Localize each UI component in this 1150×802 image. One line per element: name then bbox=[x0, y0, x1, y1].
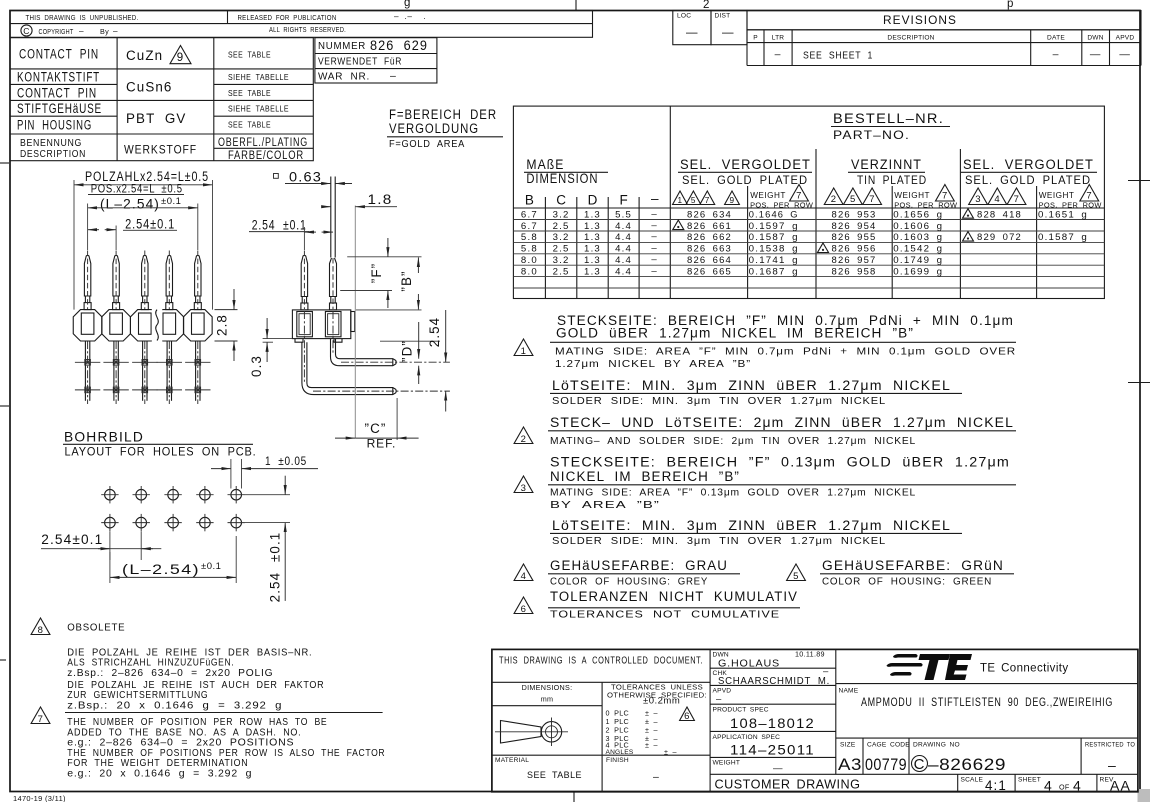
svg-text:0.1587 g: 0.1587 g bbox=[749, 232, 799, 243]
svg-text:–: – bbox=[651, 243, 658, 254]
svg-text:WEIGHT: WEIGHT bbox=[894, 191, 930, 200]
dim 2.8 housing height bbox=[215, 309, 238, 311]
svg-text:–: – bbox=[651, 254, 658, 265]
material table bbox=[10, 38, 313, 162]
svg-text:1.3: 1.3 bbox=[584, 221, 601, 232]
svg-text:7: 7 bbox=[869, 194, 875, 205]
svg-text:VERZINNT: VERZINNT bbox=[851, 157, 922, 172]
svg-text:DRAWING NO: DRAWING NO bbox=[913, 742, 960, 749]
svg-text:CAGE CODE: CAGE CODE bbox=[867, 742, 910, 749]
svg-text:SHEET: SHEET bbox=[1018, 777, 1041, 784]
fold marks right bbox=[1128, 180, 1150, 182]
svg-text:826 664: 826 664 bbox=[687, 255, 732, 266]
svg-text:PIN HOUSING: PIN HOUSING bbox=[17, 118, 92, 133]
svg-text:”D”: ”D” bbox=[400, 340, 415, 362]
table data rows bbox=[521, 208, 1088, 277]
svg-text:A3: A3 bbox=[838, 755, 862, 774]
svg-text:3.2: 3.2 bbox=[553, 232, 570, 243]
svg-text:LOC: LOC bbox=[677, 13, 691, 20]
svg-text:0.1687 g: 0.1687 g bbox=[749, 267, 799, 278]
svg-text:829 072: 829 072 bbox=[977, 232, 1022, 243]
svg-text:0.1542 g: 0.1542 g bbox=[893, 244, 943, 255]
svg-text:LAYOUT FOR HOLES ON PCB.: LAYOUT FOR HOLES ON PCB. bbox=[65, 445, 257, 459]
svg-text:F=BEREICH DER: F=BEREICH DER bbox=[389, 107, 497, 122]
svg-text:0.1606 g: 0.1606 g bbox=[893, 221, 943, 232]
svg-text:0.1597 g: 0.1597 g bbox=[749, 221, 799, 232]
svg-text:GOLD üBER 1.27μm NICKEL IM: GOLD üBER 1.27μm NICKEL IM BEREICH ”B” bbox=[556, 326, 914, 341]
svg-text:6: 6 bbox=[684, 711, 690, 722]
svg-text:9: 9 bbox=[729, 196, 734, 205]
svg-text:0.1749 g: 0.1749 g bbox=[893, 255, 943, 266]
revisions table bbox=[673, 11, 1141, 66]
svg-text:5.8: 5.8 bbox=[521, 244, 538, 255]
svg-text:POS.x2.54=L ±0.5: POS.x2.54=L ±0.5 bbox=[91, 182, 183, 196]
plating notes bbox=[514, 313, 1016, 620]
svg-text:MAßE: MAßE bbox=[526, 156, 564, 172]
svg-text:STECKSEITE: BEREICH ”F” 0.1: STECKSEITE: BEREICH ”F” 0.13μm GOLD üBER… bbox=[550, 455, 1010, 470]
pins 1-5 bbox=[84, 251, 91, 310]
svg-text:1.3: 1.3 bbox=[584, 255, 601, 266]
svg-text:PBT GV: PBT GV bbox=[126, 111, 186, 126]
svg-text:BY AREA ”B”: BY AREA ”B” bbox=[550, 499, 660, 511]
title block bbox=[492, 649, 1138, 793]
svg-text:10.11.89: 10.11.89 bbox=[795, 650, 825, 659]
svg-text:DESCRIPTION: DESCRIPTION bbox=[887, 35, 934, 42]
svg-text:NAME: NAME bbox=[839, 688, 859, 695]
svg-text:CONTACT PIN: CONTACT PIN bbox=[19, 47, 99, 62]
svg-text:4.4: 4.4 bbox=[615, 267, 632, 278]
svg-text:GEHäUSEFARBE: GRüN: GEHäUSEFARBE: GRüN bbox=[822, 558, 1004, 573]
svg-text:–: – bbox=[653, 771, 660, 783]
svg-text:3: 3 bbox=[521, 483, 527, 494]
svg-text:4: 4 bbox=[521, 571, 527, 582]
svg-text:SEL. VERGOLDET: SEL. VERGOLDET bbox=[963, 157, 1094, 172]
dim D bbox=[380, 340, 440, 342]
svg-text:mm: mm bbox=[541, 695, 554, 704]
svg-text:826 953: 826 953 bbox=[832, 209, 877, 220]
svg-text:F=GOLD AREA: F=GOLD AREA bbox=[389, 138, 465, 150]
note 3 bbox=[514, 476, 533, 493]
svg-text:– .– .: – .– . bbox=[394, 12, 426, 21]
svg-text:F: F bbox=[619, 193, 627, 208]
svg-text:826 662: 826 662 bbox=[687, 232, 732, 243]
svg-text:0.1538 g: 0.1538 g bbox=[749, 244, 799, 255]
svg-text:STECK– UND LöTSEITE: 2μm Z: STECK– UND LöTSEITE: 2μm ZINN üBER 1.27μ… bbox=[550, 415, 1014, 430]
svg-text:POS. PER ROW: POS. PER ROW bbox=[1039, 200, 1102, 209]
svg-text:—: — bbox=[1090, 49, 1101, 61]
svg-text:4.4: 4.4 bbox=[615, 244, 632, 255]
svg-text:WAR NR.: WAR NR. bbox=[318, 71, 370, 83]
svg-text:00779: 00779 bbox=[865, 755, 907, 774]
svg-text:APPLICATION SPEC: APPLICATION SPEC bbox=[713, 734, 781, 741]
fold mark top bbox=[575, 0, 577, 11]
top leg (back row) bbox=[331, 339, 397, 366]
svg-text:BESTELL–NR.: BESTELL–NR. bbox=[833, 110, 944, 126]
svg-text:SEE TABLE: SEE TABLE bbox=[527, 770, 582, 781]
svg-text:POS. PER ROW: POS. PER ROW bbox=[894, 200, 957, 209]
svg-text:DWN: DWN bbox=[1087, 35, 1103, 42]
dim F bbox=[347, 256, 421, 258]
svg-text:CuSn6: CuSn6 bbox=[126, 80, 172, 95]
svg-text:2.5: 2.5 bbox=[553, 221, 570, 232]
svg-text:TOLERANZEN NICHT KUMULATIV: TOLERANZEN NICHT KUMULATIV bbox=[550, 589, 798, 604]
svg-text:POS. PER ROW: POS. PER ROW bbox=[750, 200, 813, 209]
svg-text:826 663: 826 663 bbox=[687, 244, 732, 255]
svg-text:P: P bbox=[753, 35, 758, 42]
svg-text:NUMMER: NUMMER bbox=[318, 40, 366, 52]
svg-text:VERGOLDUNG: VERGOLDUNG bbox=[389, 121, 479, 136]
svg-text:”C”: ”C” bbox=[365, 421, 387, 436]
top header strip bbox=[10, 11, 593, 38]
svg-text:4.4: 4.4 bbox=[615, 232, 632, 243]
FRONT VIEW of pin header bbox=[73, 169, 237, 404]
svg-text:5: 5 bbox=[850, 194, 856, 205]
corner grey scan block bbox=[1138, 789, 1150, 802]
dim 2.54 rows (right) bbox=[245, 494, 290, 496]
svg-text:828 418: 828 418 bbox=[977, 209, 1022, 220]
svg-text:2.54 ±0.1: 2.54 ±0.1 bbox=[268, 532, 283, 603]
SIDE VIEW of right-angle pin header bbox=[249, 170, 450, 451]
svg-text:4: 4 bbox=[1044, 778, 1053, 794]
svg-text:0.1741 g: 0.1741 g bbox=[749, 255, 799, 266]
svg-text:C: C bbox=[23, 26, 29, 36]
housing units bbox=[73, 310, 102, 341]
svg-text:C: C bbox=[914, 756, 926, 773]
svg-text:”B”: ”B” bbox=[399, 270, 414, 291]
fold mark bottom bbox=[573, 791, 575, 802]
svg-text:COLOR OF HOUSING: GREY: COLOR OF HOUSING: GREY bbox=[550, 575, 708, 587]
svg-text:DIST: DIST bbox=[715, 13, 731, 20]
svg-text:z.Bsp.: 20 x 0.1646 g =: z.Bsp.: 20 x 0.1646 g = 3.292 g bbox=[67, 699, 282, 711]
svg-text:COLOR OF HOUSING: GREEN: COLOR OF HOUSING: GREEN bbox=[822, 575, 992, 587]
svg-text:RELEASED FOR PUBLICATION: RELEASED FOR PUBLICATION bbox=[238, 13, 337, 22]
svg-text:DIMENSION: DIMENSION bbox=[526, 171, 598, 186]
svg-text:7: 7 bbox=[38, 714, 44, 725]
svg-text:—: — bbox=[1119, 49, 1130, 61]
svg-text:THIS DRAWING IS UNPUBLISHED: THIS DRAWING IS UNPUBLISHED. bbox=[26, 13, 139, 22]
svg-text:ALL RIGHTS RESERVED.: ALL RIGHTS RESERVED. bbox=[269, 25, 346, 34]
svg-text:2: 2 bbox=[831, 194, 837, 205]
svg-text:REVISIONS: REVISIONS bbox=[883, 15, 957, 27]
svg-text:8.0: 8.0 bbox=[521, 255, 538, 266]
svg-text:826 958: 826 958 bbox=[832, 267, 877, 278]
triangle note 9 bbox=[170, 46, 191, 64]
svg-text:CuZn: CuZn bbox=[126, 48, 163, 63]
svg-text:±0.2mm: ±0.2mm bbox=[643, 696, 680, 707]
svg-text:826 634: 826 634 bbox=[687, 209, 732, 220]
svg-text:826 955: 826 955 bbox=[832, 232, 877, 243]
svg-text:± –: ± – bbox=[645, 741, 658, 750]
svg-text:1 ±0.05: 1 ±0.05 bbox=[265, 454, 307, 468]
svg-text:TE Connectivity: TE Connectivity bbox=[980, 663, 1069, 675]
svg-text:–: – bbox=[651, 191, 659, 206]
svg-text:–: – bbox=[651, 266, 658, 277]
svg-text:REF.: REF. bbox=[367, 437, 397, 451]
svg-text:826 629: 826 629 bbox=[370, 37, 428, 53]
svg-text:2.5: 2.5 bbox=[553, 244, 570, 255]
svg-text:AMPMODU II STIFTLEISTEN 90: AMPMODU II STIFTLEISTEN 90 DEG.,ZWEIREIH… bbox=[861, 695, 1113, 709]
svg-text:GEHäUSEFARBE: GRAU: GEHäUSEFARBE: GRAU bbox=[550, 558, 728, 573]
svg-text:2: 2 bbox=[703, 0, 710, 11]
svg-text:—: — bbox=[686, 27, 699, 39]
svg-text:–: – bbox=[79, 27, 84, 36]
svg-text:–: – bbox=[113, 27, 118, 36]
svg-text:–: – bbox=[716, 694, 722, 705]
copyright row bbox=[21, 25, 32, 36]
svg-text:7: 7 bbox=[705, 196, 710, 205]
svg-text:OBERFL./PLATING: OBERFL./PLATING bbox=[218, 137, 308, 149]
svg-text:4.4: 4.4 bbox=[615, 221, 632, 232]
svg-text:DESCRIPTION: DESCRIPTION bbox=[20, 148, 86, 160]
dim 0.3 bbox=[263, 338, 293, 340]
svg-text:WEIGHT: WEIGHT bbox=[1039, 191, 1075, 200]
svg-text:108–18012: 108–18012 bbox=[730, 715, 815, 731]
projection symbol bbox=[501, 721, 542, 744]
svg-text:1.3: 1.3 bbox=[584, 267, 601, 278]
svg-text:± –: ± – bbox=[664, 748, 677, 757]
svg-text:RESTRICTED TO: RESTRICTED TO bbox=[1085, 742, 1135, 749]
svg-text:–: – bbox=[651, 231, 658, 242]
svg-text:0.1651 g: 0.1651 g bbox=[1038, 209, 1088, 220]
svg-text:826 957: 826 957 bbox=[832, 255, 877, 266]
svg-text:–: – bbox=[775, 49, 782, 61]
svg-text:KONTAKTSTIFT: KONTAKTSTIFT bbox=[17, 70, 100, 85]
svg-text:SIEHE TABELLE: SIEHE TABELLE bbox=[228, 73, 289, 82]
note 1 bbox=[514, 339, 533, 356]
dim C REF bbox=[396, 398, 398, 440]
svg-text:OF: OF bbox=[1059, 783, 1070, 792]
svg-text:COPYRIGHT: COPYRIGHT bbox=[39, 27, 74, 36]
svg-text:–826629: –826629 bbox=[928, 755, 1006, 774]
svg-text:VERWENDET FüR: VERWENDET FüR bbox=[318, 56, 402, 68]
svg-text:1: 1 bbox=[521, 346, 527, 357]
svg-text:0.1646 G: 0.1646 G bbox=[749, 209, 799, 220]
svg-text:MATING– AND SOLDER SIDE: 2: MATING– AND SOLDER SIDE: 2μm TIN OVER 1.… bbox=[550, 435, 916, 447]
svg-text:”F”: ”F” bbox=[369, 263, 384, 283]
svg-text:DIMENSIONS:: DIMENSIONS: bbox=[522, 683, 573, 692]
svg-text:5: 5 bbox=[691, 196, 696, 205]
svg-text:p: p bbox=[1007, 0, 1014, 10]
dim 2.54 legs bbox=[445, 310, 447, 362]
housing feet bbox=[295, 339, 303, 343]
svg-text:SEE TABLE: SEE TABLE bbox=[228, 89, 271, 98]
svg-text:PART–NO.: PART–NO. bbox=[833, 130, 910, 142]
svg-text:0.1603 g: 0.1603 g bbox=[893, 232, 943, 243]
leg centerlines bbox=[332, 311, 334, 354]
svg-text:THIS DRAWING IS A CONTROLL: THIS DRAWING IS A CONTROLLED DOCUMENT. bbox=[499, 655, 703, 667]
svg-text:—: — bbox=[722, 27, 735, 39]
svg-text:6.7: 6.7 bbox=[521, 221, 538, 232]
svg-text:826 661: 826 661 bbox=[687, 221, 732, 232]
svg-text:G.HOLAUS: G.HOLAUS bbox=[718, 657, 780, 669]
svg-text:826 665: 826 665 bbox=[687, 267, 732, 278]
svg-text:–: – bbox=[651, 220, 658, 231]
BOHRBILD hole layout bbox=[41, 429, 318, 603]
svg-text:1.3: 1.3 bbox=[584, 244, 601, 255]
svg-text:826 954: 826 954 bbox=[832, 221, 877, 232]
svg-text:AA: AA bbox=[1110, 778, 1131, 794]
bottom leg (front row) bbox=[302, 342, 396, 394]
svg-text:4: 4 bbox=[994, 194, 1000, 205]
svg-text:9: 9 bbox=[177, 52, 184, 64]
svg-text:0.1699 g: 0.1699 g bbox=[893, 267, 943, 278]
svg-text:FARBE/COLOR: FARBE/COLOR bbox=[228, 150, 304, 162]
svg-text:3.2: 3.2 bbox=[553, 255, 570, 266]
svg-text:±0.1: ±0.1 bbox=[161, 196, 181, 207]
svg-text:0.1656 g: 0.1656 g bbox=[893, 209, 943, 220]
svg-text:g: g bbox=[404, 0, 411, 9]
svg-text:4.4: 4.4 bbox=[615, 255, 632, 266]
front pin bbox=[301, 255, 307, 296]
break squiggle between units 3-4 bbox=[152, 308, 163, 343]
svg-text:4:1: 4:1 bbox=[985, 778, 1007, 793]
svg-text:1.3: 1.3 bbox=[584, 209, 601, 220]
svg-text:5.8: 5.8 bbox=[521, 232, 538, 243]
svg-text:B: B bbox=[525, 193, 534, 208]
svg-text:1.27μm NICKEL BY AREA ”B”: 1.27μm NICKEL BY AREA ”B” bbox=[555, 358, 751, 370]
svg-text:TIN PLATED: TIN PLATED bbox=[857, 175, 927, 187]
svg-text:MATING SIDE: AREA ”F” 0.13: MATING SIDE: AREA ”F” 0.13μm GOLD OVER 1… bbox=[550, 486, 916, 498]
housing (side) bbox=[292, 310, 350, 339]
svg-text:SOLDER SIDE: MIN. 3μm TIN: SOLDER SIDE: MIN. 3μm TIN OVER 1.27μm NI… bbox=[552, 535, 886, 547]
extension lines bbox=[73, 180, 75, 310]
svg-text:1.8: 1.8 bbox=[368, 192, 393, 207]
svg-text:1: 1 bbox=[677, 196, 682, 205]
svg-text:3: 3 bbox=[975, 194, 981, 205]
svg-text:e.g.: 20 x 0.1646 g = 3.: e.g.: 20 x 0.1646 g = 3.292 g bbox=[67, 768, 252, 780]
legs 1-5 bbox=[75, 341, 100, 404]
svg-text:ANGLES: ANGLES bbox=[606, 749, 634, 756]
svg-text:6.7: 6.7 bbox=[521, 209, 538, 220]
svg-text:1.3: 1.3 bbox=[584, 232, 601, 243]
svg-text:2: 2 bbox=[521, 434, 527, 445]
svg-text:LöTSEITE: MIN. 3μm ZINN üB: LöTSEITE: MIN. 3μm ZINN üBER 1.27μm NICK… bbox=[552, 378, 951, 393]
svg-text:2.5: 2.5 bbox=[553, 267, 570, 278]
svg-text:By: By bbox=[100, 27, 109, 36]
svg-text:CUSTOMER DRAWING: CUSTOMER DRAWING bbox=[715, 777, 861, 792]
svg-text:4: 4 bbox=[1073, 778, 1082, 794]
svg-text:0.1587 g: 0.1587 g bbox=[1038, 232, 1088, 243]
svg-text:8.0: 8.0 bbox=[521, 267, 538, 278]
svg-text:WERKSTOFF: WERKSTOFF bbox=[124, 145, 197, 157]
svg-text:6: 6 bbox=[521, 604, 527, 615]
svg-text:SIZE: SIZE bbox=[840, 742, 856, 749]
svg-text:2.54±0.1: 2.54±0.1 bbox=[125, 217, 175, 232]
svg-text:LTR: LTR bbox=[772, 35, 785, 42]
note 5 bbox=[787, 564, 806, 581]
svg-text:CONTACT PIN: CONTACT PIN bbox=[17, 86, 97, 101]
svg-text:–: – bbox=[651, 208, 658, 219]
svg-text:MATING SIDE: AREA ”F” MIN: MATING SIDE: AREA ”F” MIN 0.7μm PdNi + M… bbox=[555, 345, 1016, 357]
svg-text:SEE TABLE: SEE TABLE bbox=[228, 121, 271, 130]
back pin upper square section bbox=[330, 177, 332, 258]
svg-text:SEE TABLE: SEE TABLE bbox=[228, 51, 271, 60]
obsolete + base number notes bbox=[31, 618, 385, 780]
svg-text:DATE: DATE bbox=[1047, 35, 1065, 42]
svg-text:826 956: 826 956 bbox=[832, 244, 877, 255]
svg-text:5: 5 bbox=[793, 571, 799, 582]
svg-text:8: 8 bbox=[38, 625, 44, 636]
note 4 bbox=[514, 564, 533, 581]
svg-text:114–25011: 114–25011 bbox=[730, 742, 815, 758]
svg-text:SCALE: SCALE bbox=[961, 777, 984, 784]
svg-text:BOHRBILD: BOHRBILD bbox=[64, 429, 144, 445]
svg-text:–: – bbox=[1053, 49, 1060, 61]
svg-text:TOLERANCES NOT CUMULATIVE: TOLERANCES NOT CUMULATIVE bbox=[550, 608, 780, 620]
svg-text:OBSOLETE: OBSOLETE bbox=[67, 622, 125, 634]
svg-text:7: 7 bbox=[1014, 194, 1020, 205]
part number table bbox=[513, 106, 1104, 298]
svg-text:–: – bbox=[1108, 757, 1117, 773]
dim B bbox=[356, 309, 422, 311]
svg-text:1470-19 (3/11): 1470-19 (3/11) bbox=[13, 794, 66, 802]
dim 0.63 square bbox=[274, 174, 279, 179]
svg-text:SEL. VERGOLDET: SEL. VERGOLDET bbox=[680, 157, 811, 172]
svg-text:FINISH: FINISH bbox=[606, 757, 629, 764]
svg-text:2.54±0.1: 2.54±0.1 bbox=[41, 532, 103, 547]
note 2 bbox=[514, 427, 533, 444]
svg-text:(L–2.54): (L–2.54) bbox=[100, 197, 160, 212]
svg-text:—: — bbox=[773, 763, 783, 774]
svg-text:0.63: 0.63 bbox=[289, 170, 322, 185]
svg-text:WEIGHT: WEIGHT bbox=[713, 760, 741, 767]
svg-text:PRODUCT SPEC: PRODUCT SPEC bbox=[713, 707, 769, 714]
svg-text:SEL. GOLD PLATED: SEL. GOLD PLATED bbox=[965, 175, 1091, 187]
svg-text:NICKEL IM BEREICH ”B”: NICKEL IM BEREICH ”B” bbox=[550, 469, 740, 484]
svg-text:STIFTGEHäUSE: STIFTGEHäUSE bbox=[17, 101, 102, 116]
svg-text:APVD: APVD bbox=[1116, 35, 1135, 42]
svg-text:5.5: 5.5 bbox=[615, 209, 632, 220]
svg-text:SEL. GOLD PLATED: SEL. GOLD PLATED bbox=[682, 175, 808, 187]
fold marks left bbox=[0, 162, 9, 164]
TE logo bbox=[887, 654, 973, 680]
svg-text:SOLDER SIDE: MIN. 3μm TIN: SOLDER SIDE: MIN. 3μm TIN OVER 1.27μm NI… bbox=[552, 395, 886, 407]
svg-text:2.54 ±0.1: 2.54 ±0.1 bbox=[252, 218, 307, 233]
note 6 bbox=[514, 597, 533, 614]
svg-text:C: C bbox=[556, 193, 566, 208]
svg-text:3.2: 3.2 bbox=[553, 209, 570, 220]
svg-text:2.8: 2.8 bbox=[215, 314, 230, 336]
back pin body bbox=[330, 258, 337, 297]
svg-text:MATERIAL: MATERIAL bbox=[495, 757, 529, 764]
svg-text:(L–2.54): (L–2.54) bbox=[122, 562, 200, 577]
svg-text:SCHAARSCHMIDT M.: SCHAARSCHMIDT M. bbox=[718, 675, 830, 687]
nummer box bbox=[315, 37, 503, 150]
svg-text:LöTSEITE: MIN. 3μm ZINN üB: LöTSEITE: MIN. 3μm ZINN üBER 1.27μm NICK… bbox=[552, 518, 951, 533]
svg-text:WEIGHT: WEIGHT bbox=[750, 191, 786, 200]
svg-text:SEE SHEET 1: SEE SHEET 1 bbox=[803, 50, 873, 62]
svg-text:±0.1: ±0.1 bbox=[201, 561, 221, 572]
svg-text:2.54: 2.54 bbox=[427, 317, 442, 347]
svg-text:D: D bbox=[588, 193, 598, 208]
svg-text:0.3: 0.3 bbox=[249, 355, 264, 377]
construction line (pcb face) bbox=[354, 206, 356, 439]
svg-text:z.Bsp.: 2–826 634–0 = 2x20: z.Bsp.: 2–826 634–0 = 2x20 POLIG bbox=[67, 667, 273, 679]
svg-text:SIEHE TABELLE: SIEHE TABELLE bbox=[228, 105, 289, 114]
svg-text:–: – bbox=[390, 70, 397, 82]
